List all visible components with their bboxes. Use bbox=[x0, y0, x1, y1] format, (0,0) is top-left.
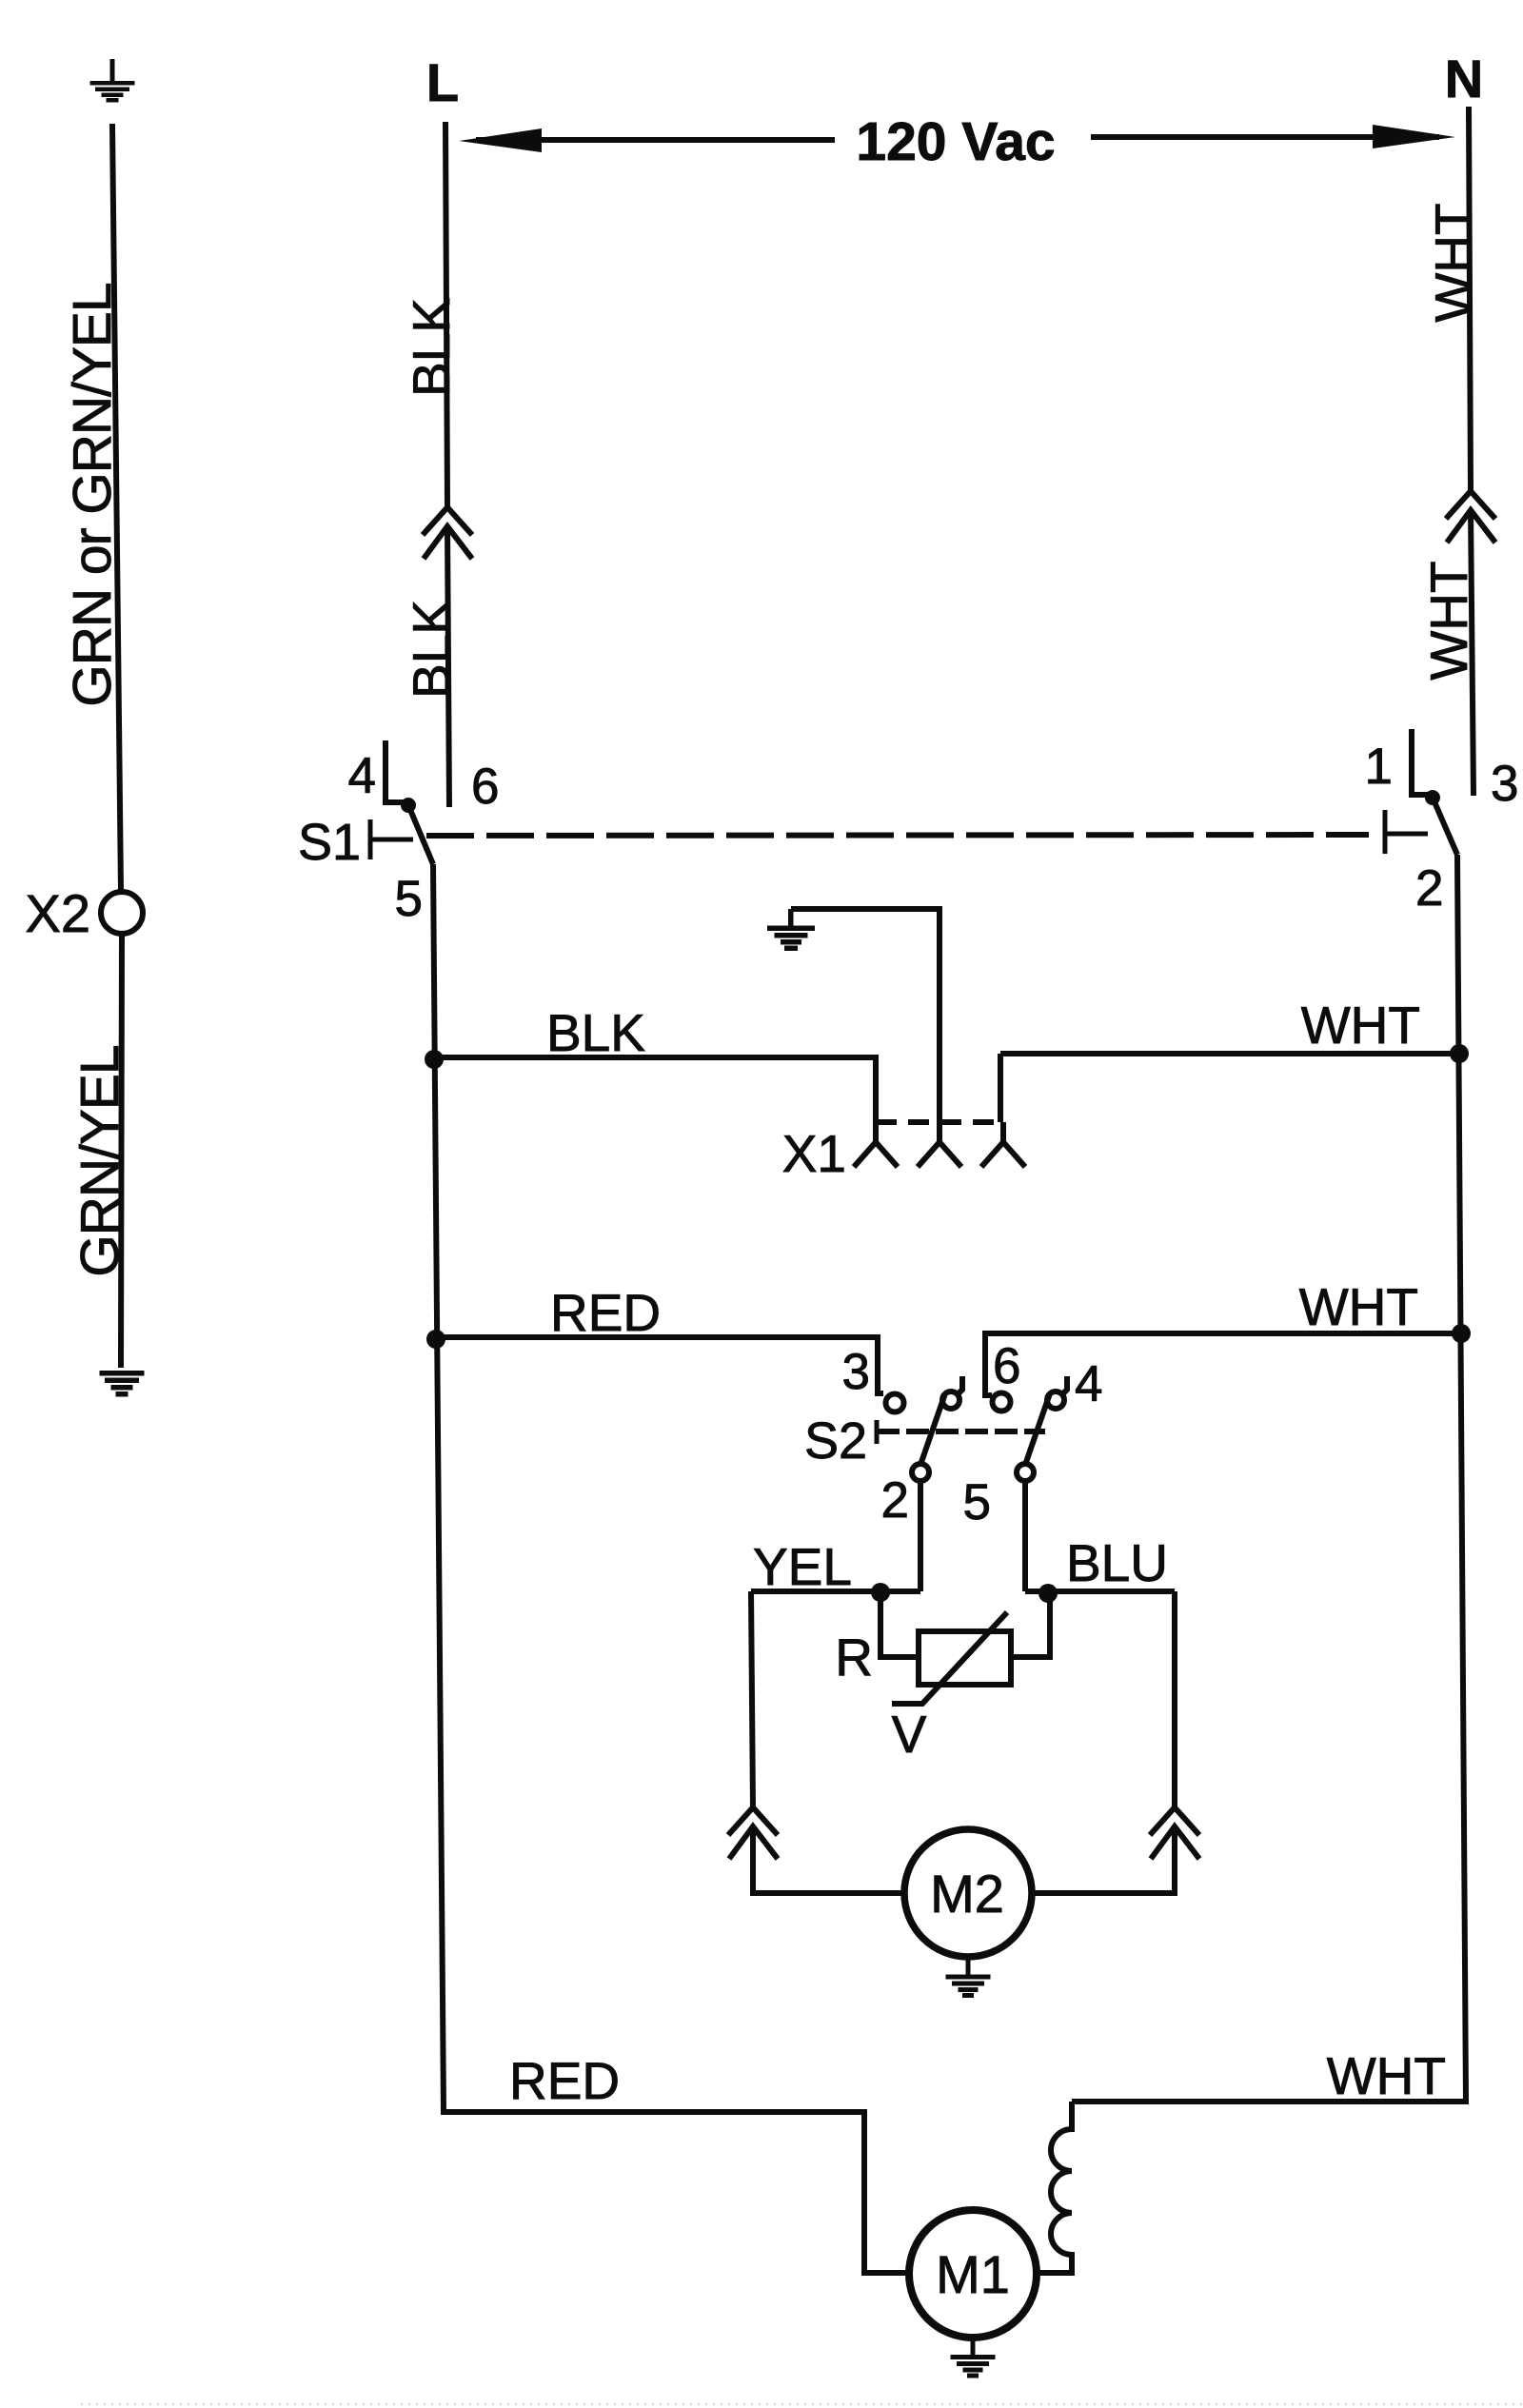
svg-text:WHT: WHT bbox=[1327, 2046, 1446, 2105]
svg-text:S2: S2 bbox=[804, 1412, 867, 1470]
inline connector (left M2 lead chevrons) bbox=[728, 1807, 778, 1835]
motor M1 bbox=[909, 2210, 1037, 2338]
svg-text:GRN/YEL: GRN/YEL bbox=[69, 1045, 130, 1276]
wire YEL node down to varistor R left lead bbox=[880, 1592, 919, 1657]
wire right rail (S1 pin 2 down to bottom WHT run) bbox=[1072, 855, 1466, 2102]
svg-text:M1: M1 bbox=[936, 2244, 1010, 2304]
switch S1 left pole moving arm (4 to 5) bbox=[408, 805, 433, 864]
switch S2 pin 3 stationary contact bbox=[886, 1394, 904, 1412]
wire connector to M2 right terminal bbox=[1032, 1826, 1175, 1893]
svg-text:M2: M2 bbox=[930, 1864, 1004, 1924]
switch S2 pin 6 stationary contact bbox=[993, 1393, 1011, 1411]
ground (bottom of left earth rail) bbox=[100, 1371, 145, 1397]
wire WHT upper (N terminal down to connector) bbox=[1469, 107, 1471, 491]
ground (M1 case) bbox=[951, 2338, 996, 2378]
svg-text:N: N bbox=[1445, 49, 1483, 109]
svg-text:BLK: BLK bbox=[402, 600, 461, 699]
connector X1 (three prongs with dashed gang line) bbox=[876, 1119, 1003, 1125]
node BLK/WHT row junction (left) bbox=[425, 1050, 444, 1069]
svg-text:YEL: YEL bbox=[753, 1537, 852, 1596]
svg-text:WHT: WHT bbox=[1301, 996, 1420, 1055]
varistor R body bbox=[919, 1631, 1011, 1685]
wire BLK (row 1 to connector X1) bbox=[434, 1057, 876, 1122]
node RED row junction (left) bbox=[426, 1330, 445, 1349]
wire left rail (S1 pin 5 down to bottom, RED feed to M1) bbox=[433, 864, 909, 2273]
wire varistor right lead up to BLU node bbox=[1011, 1593, 1050, 1657]
switch S2 pole 2 moving arm (5 toward 4) bbox=[1025, 1393, 1050, 1465]
svg-text:5: 5 bbox=[395, 871, 423, 927]
switch S2 pin 5 pivot contact bbox=[1017, 1464, 1034, 1481]
switch S1 right pole moving arm (1 to 2) bbox=[1433, 798, 1457, 855]
inline connector (right WHT quick-disconnect chevrons) bbox=[1446, 491, 1495, 519]
wire GRN/YEL (X2 down to chassis ground) bbox=[121, 934, 122, 1368]
svg-text:3: 3 bbox=[1491, 756, 1518, 812]
wire YEL branch down to M2 connector bbox=[751, 1591, 753, 1807]
svg-text:WHT: WHT bbox=[1299, 1277, 1418, 1336]
S1 linkage tick (right) bbox=[1383, 810, 1388, 854]
svg-text:X1: X1 bbox=[782, 1124, 846, 1183]
ground (top left earth symbol) bbox=[90, 59, 135, 103]
svg-text:2: 2 bbox=[881, 1472, 909, 1529]
wire 120 Vac arrow (left segment with arrowhead) bbox=[476, 137, 835, 143]
svg-text:GRN or GRN/YEL: GRN or GRN/YEL bbox=[62, 283, 123, 706]
wire RED (row 2 to S2 pin 3) bbox=[436, 1337, 883, 1393]
svg-text:1: 1 bbox=[1365, 739, 1393, 795]
node WHT row junction (right) bbox=[1450, 1044, 1469, 1063]
svg-text:6: 6 bbox=[993, 1338, 1020, 1394]
switch S2 pole 1 moving arm (2 toward 6) bbox=[920, 1393, 945, 1465]
svg-text:4: 4 bbox=[348, 748, 376, 804]
wire BLK upper (L terminal down to connector) bbox=[445, 122, 447, 506]
scan artifact line (bottom) bbox=[81, 2403, 1523, 2406]
svg-text:RED: RED bbox=[509, 2051, 620, 2110]
S1 linkage tick (left) bbox=[368, 819, 373, 859]
svg-text:4: 4 bbox=[1075, 1356, 1102, 1412]
varistor diagonal stroke bbox=[892, 1612, 1007, 1704]
svg-text:S1: S1 bbox=[298, 814, 361, 871]
wire WHT (row 2 from S2 pin 6 to right rail) bbox=[985, 1333, 1462, 1395]
svg-text:120 Vac: 120 Vac bbox=[856, 111, 1055, 172]
svg-text:BLU: BLU bbox=[1066, 1533, 1168, 1592]
wire ground to X1 middle pin bbox=[791, 909, 940, 1122]
svg-text:X2: X2 bbox=[26, 883, 91, 943]
svg-text:V: V bbox=[892, 1705, 927, 1764]
switch S1 right pole: pin 1 stub and contact dot bbox=[1412, 729, 1430, 795]
svg-text:BLK: BLK bbox=[546, 1003, 645, 1062]
svg-text:R: R bbox=[835, 1628, 873, 1687]
wire GRN (top ground lead down to connector X2) bbox=[112, 124, 121, 892]
svg-text:L: L bbox=[426, 52, 459, 112]
wire WHT lower (connector down to S1 pin 3) bbox=[1471, 510, 1474, 796]
wire S2 pin 5 down to BLU node bbox=[1022, 1481, 1028, 1591]
node WHT row 2 junction (right) bbox=[1452, 1324, 1471, 1343]
inductor (M1 start winding coil) bbox=[1037, 2102, 1072, 2273]
motor M2 bbox=[904, 1829, 1032, 1957]
wire YEL (junction row) bbox=[751, 1589, 920, 1594]
wire BLK lower (connector down to S1 pin 6) bbox=[447, 526, 449, 807]
svg-text:6: 6 bbox=[471, 759, 499, 815]
S1 mechanical linkage (dashed) bbox=[426, 835, 1369, 836]
wire connector to M2 left terminal bbox=[753, 1826, 904, 1893]
ground (M2 case) bbox=[946, 1957, 991, 1998]
svg-text:WHT: WHT bbox=[1424, 203, 1483, 322]
switch S1 left pole: pin 4 stub and contact dot bbox=[386, 740, 405, 802]
svg-text:RED: RED bbox=[550, 1283, 661, 1342]
wire 120 Vac arrow (right segment with arrowhead) bbox=[1091, 134, 1439, 140]
switch S2 pin 2 pivot contact bbox=[912, 1464, 929, 1481]
inline connector (right M2 lead chevrons) bbox=[1150, 1807, 1199, 1835]
svg-text:WHT: WHT bbox=[1419, 561, 1478, 680]
wire BLU (junction row) bbox=[1025, 1589, 1175, 1594]
svg-text:BLK: BLK bbox=[402, 298, 461, 397]
wire BLU branch down to M2 connector bbox=[1172, 1591, 1177, 1807]
node BLU junction bbox=[1038, 1584, 1058, 1603]
inline connector (left BLK quick-disconnect chevrons) bbox=[423, 507, 472, 535]
S2 mechanical linkage (dashed) bbox=[877, 1429, 1045, 1434]
S2 linkage tick bbox=[875, 1420, 880, 1444]
node YEL junction bbox=[871, 1583, 890, 1602]
wire WHT (row 1 from X1 to right rail) bbox=[1000, 1054, 1460, 1122]
ground (X1 earth lead) bbox=[767, 909, 815, 951]
svg-text:3: 3 bbox=[842, 1344, 870, 1400]
svg-text:2: 2 bbox=[1415, 860, 1443, 917]
connector X2 bbox=[101, 892, 143, 934]
svg-text:5: 5 bbox=[963, 1474, 991, 1530]
wire S2 pin 2 down to YEL node bbox=[918, 1481, 923, 1591]
